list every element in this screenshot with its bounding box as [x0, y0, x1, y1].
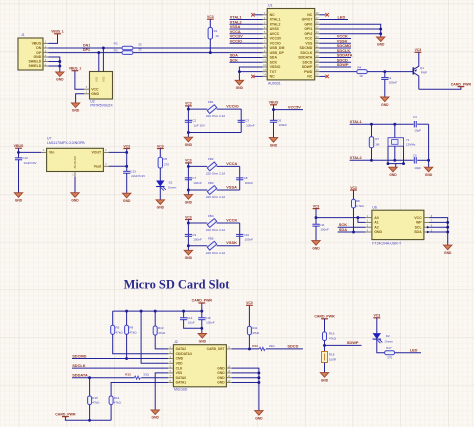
- wire FB2 left down: [187, 166, 189, 190]
- power port VC3 (U7): [123, 148, 130, 150]
- svg-text:GND: GND: [217, 371, 225, 375]
- wire net VSSA to U1: [230, 28, 263, 30]
- wire FB1 right down: [240, 109, 242, 132]
- svg-text:10uF/16V: 10uF/16V: [24, 161, 37, 165]
- connector J1 USB: [18, 38, 43, 70]
- resistor R11: [247, 326, 251, 335]
- svg-text:VSS: VSS: [305, 41, 313, 45]
- wire CARD_PWR bottom rail: [65, 417, 111, 421]
- power port VBUS (C6): [270, 104, 277, 106]
- svg-text:CARD_PWR: CARD_PWR: [451, 82, 472, 86]
- svg-text:R14: R14: [114, 396, 120, 400]
- wire R10 to DATA2: [155, 335, 168, 349]
- wire FB2 right down: [239, 166, 241, 190]
- svg-text:NC: NC: [270, 75, 276, 79]
- svg-text:SDWP: SDWP: [302, 65, 313, 69]
- svg-text:ADJ/GND: ADJ/GND: [73, 156, 77, 168]
- wire C4 to right rail: [417, 123, 428, 125]
- power port VC3 (FB2): [185, 162, 192, 164]
- svg-text:VCC: VCC: [414, 216, 422, 220]
- wire net VCCA to U1: [230, 33, 263, 35]
- wire DP: [48, 52, 122, 54]
- svg-text:SDA: SDA: [270, 56, 278, 60]
- svg-text:R4: R4: [357, 65, 361, 69]
- svg-text:270: 270: [164, 162, 169, 166]
- wire FB5 rail: [188, 245, 207, 247]
- svg-text:C12: C12: [22, 156, 28, 160]
- wire Q1 collector to CARD_PWR: [419, 87, 461, 90]
- svg-text:GND: GND: [71, 199, 79, 203]
- svg-text:220 Ohm 2.2A: 220 Ohm 2.2A: [206, 228, 225, 232]
- svg-text:GND: GND: [72, 109, 80, 113]
- svg-text:XTAL2: XTAL2: [270, 22, 281, 26]
- wire VBUS node: [273, 105, 275, 110]
- svg-text:VC3: VC3: [313, 204, 320, 208]
- svg-text:1M: 1M: [375, 142, 380, 146]
- svg-text:C10: C10: [244, 233, 250, 237]
- svg-text:C9: C9: [192, 233, 196, 237]
- wire C5 to right rail: [417, 159, 428, 161]
- svg-text:47kΩ: 47kΩ: [158, 331, 166, 335]
- svg-text:VSSK: VSSK: [226, 240, 237, 245]
- wire VC3 to D2: [376, 318, 378, 333]
- wire DN: [48, 47, 122, 49]
- svg-text:I/O2: I/O2: [102, 76, 106, 81]
- power port VC3 (FB1): [185, 105, 192, 107]
- svg-text:R1: R1: [214, 29, 218, 33]
- svg-text:VCCIO: VCCIO: [230, 38, 242, 43]
- svg-text:A2: A2: [374, 225, 379, 229]
- ground U7 ADJ: [71, 193, 79, 198]
- svg-text:C1: C1: [388, 76, 392, 80]
- svg-text:SDCMD: SDCMD: [72, 353, 86, 358]
- svg-text:GND: GND: [217, 376, 225, 380]
- svg-text:GPIO7: GPIO7: [302, 18, 313, 22]
- wire VBUS_1 to U2 VCC: [75, 71, 84, 90]
- ground C13: [123, 193, 131, 198]
- svg-text:VC3: VC3: [207, 15, 214, 19]
- svg-text:FB3: FB3: [208, 181, 214, 185]
- wire U1 GPI0-2 tie: [319, 24, 380, 37]
- wire U1 pin28 NC stub: [319, 14, 325, 16]
- svg-text:SCK: SCK: [270, 60, 278, 64]
- wire VC3 to R6: [159, 149, 161, 158]
- capacitor C10: [236, 233, 243, 235]
- svg-text:NC: NC: [307, 13, 313, 17]
- capacitor C12: [18, 152, 20, 158]
- wire D1 to ground: [159, 187, 161, 200]
- wire SCK to U6 A2: [338, 226, 366, 228]
- power port VBUS (U7): [15, 147, 22, 149]
- ground FB1 group: [184, 137, 192, 142]
- svg-text:R5: R5: [116, 325, 120, 329]
- ground U1 left: [235, 80, 243, 85]
- wire FB2 rail: [188, 165, 207, 167]
- wire R9 column: [126, 311, 128, 325]
- svg-text:VSSA: VSSA: [226, 185, 237, 190]
- svg-text:VOUT: VOUT: [91, 151, 102, 155]
- resistor R1: [208, 28, 212, 40]
- svg-text:Vout: Vout: [94, 165, 102, 169]
- svg-text:33Ω: 33Ω: [143, 372, 149, 376]
- svg-text:GPI0: GPI0: [304, 22, 312, 26]
- svg-text:VBUS: VBUS: [269, 101, 279, 105]
- svg-text:MicroSD: MicroSD: [174, 387, 188, 391]
- svg-text:C3: C3: [245, 119, 249, 123]
- wire U7 VOUT to VC3: [109, 151, 127, 153]
- svg-text:D1: D1: [169, 180, 173, 184]
- power port CARD_PWR (bottom): [62, 416, 69, 418]
- svg-text:220 Ohm 2.2A: 220 Ohm 2.2A: [206, 114, 225, 118]
- svg-text:R12: R12: [252, 344, 258, 348]
- wire VC3 to R8: [353, 190, 355, 199]
- wire VC3 to U6 A0: [315, 209, 317, 218]
- power port VC3 (D1): [157, 148, 164, 150]
- svg-text:C14: C14: [187, 316, 193, 320]
- ferrite bead FB2: [207, 162, 216, 171]
- svg-text:Green: Green: [168, 186, 177, 190]
- wire net SDCLK from U1: [319, 52, 351, 54]
- svg-text:C8: C8: [244, 176, 248, 180]
- capacitor C14: [183, 311, 185, 318]
- svg-text:SDCLK: SDCLK: [300, 51, 313, 55]
- wire U1 pin14 NC stub: [254, 75, 262, 77]
- svg-text:I/O1: I/O1: [95, 76, 99, 81]
- svg-text:C5: C5: [413, 153, 417, 157]
- svg-text:100nF: 100nF: [320, 227, 329, 231]
- regulator U7 LM1117: [47, 148, 104, 171]
- svg-text:Y1: Y1: [406, 138, 410, 142]
- wire net SDCMD from U1: [319, 47, 351, 49]
- svg-text:10pF: 10pF: [414, 128, 421, 132]
- capacitor C2: [185, 119, 192, 121]
- resistor R18: [322, 352, 328, 363]
- wire SDDATA right: [141, 377, 168, 379]
- svg-text:VBUS_1: VBUS_1: [51, 30, 64, 34]
- svg-text:22uF/6.3V: 22uF/6.3V: [131, 174, 145, 178]
- svg-text:VCC: VCC: [305, 37, 313, 41]
- wire SCK to U1: [230, 61, 263, 63]
- svg-text:C7: C7: [192, 176, 196, 180]
- svg-text:LED: LED: [338, 15, 346, 20]
- wire DATA1 column: [111, 383, 168, 397]
- svg-text:GND: GND: [217, 366, 225, 370]
- power port CARD_PWR (Q1): [458, 86, 465, 88]
- svg-text:GND: GND: [321, 378, 329, 382]
- no-connect X pin14: [251, 75, 254, 78]
- svg-text:CD/DATA3: CD/DATA3: [176, 352, 192, 356]
- wire SDCLK: [72, 367, 168, 369]
- svg-text:VCCIO: VCCIO: [270, 41, 281, 45]
- svg-text:GND: GND: [312, 246, 320, 250]
- svg-text:C4: C4: [413, 115, 417, 119]
- svg-text:GPI1: GPI1: [304, 27, 312, 31]
- junction R1/DP: [209, 51, 212, 54]
- wire SDA to U6 GND pin: [338, 231, 366, 233]
- svg-text:Micro SD Card Slot: Micro SD Card Slot: [124, 277, 231, 291]
- svg-text:GND: GND: [377, 43, 385, 47]
- power port VC3 (U6 left): [313, 208, 320, 210]
- wire U6 right tie: [429, 218, 448, 232]
- wire net XTAL1 to U1: [230, 19, 263, 21]
- svg-text:GND: GND: [91, 92, 99, 96]
- svg-text:GND: GND: [123, 199, 131, 203]
- svg-text:C2: C2: [192, 119, 196, 123]
- svg-text:GND: GND: [236, 86, 244, 90]
- svg-text:FB1: FB1: [208, 100, 214, 104]
- svg-text:VC3: VC3: [185, 102, 192, 106]
- crystal Y1 12MHz: [394, 124, 396, 138]
- capacitor C7: [185, 177, 192, 179]
- svg-text:1uF 16V: 1uF 16V: [194, 123, 205, 127]
- wire R18 to ground: [324, 363, 326, 373]
- svg-text:FB2: FB2: [208, 157, 214, 161]
- svg-text:SHIELD: SHIELD: [28, 60, 41, 64]
- svg-text:VC3: VC3: [123, 144, 130, 148]
- capacitor C1: [384, 72, 386, 78]
- svg-text:VC3: VC3: [246, 301, 253, 305]
- ground R18: [320, 373, 328, 378]
- svg-text:CARD_DET: CARD_DET: [207, 347, 225, 351]
- svg-text:100nF: 100nF: [193, 181, 202, 185]
- wire net VCCK from U1: [319, 38, 351, 40]
- wire U2 pin to DP: [98, 53, 100, 72]
- svg-text:220 Ohm 2.2A: 220 Ohm 2.2A: [206, 251, 225, 255]
- svg-text:DATA0: DATA0: [176, 376, 187, 380]
- no-connect X pin15: [325, 75, 328, 78]
- ground J2 right: [255, 411, 263, 416]
- svg-text:VCCK: VCCK: [226, 218, 237, 223]
- transistor Q1 PNP: [412, 67, 414, 74]
- resistor R2: [122, 46, 133, 50]
- svg-text:220 Ohm 2.2A: 220 Ohm 2.2A: [206, 195, 225, 199]
- ferrite bead FB1: [207, 105, 216, 114]
- svg-text:SDWP: SDWP: [347, 340, 359, 345]
- svg-text:CARD_PWR: CARD_PWR: [55, 412, 76, 416]
- svg-text:U6: U6: [372, 205, 377, 209]
- capacitor C3: [238, 119, 245, 121]
- svg-text:12MHz: 12MHz: [406, 143, 416, 147]
- wire U1 PWD to R4: [319, 71, 356, 73]
- svg-text:AVSS: AVSS: [270, 27, 280, 31]
- svg-text:100nF: 100nF: [279, 123, 288, 127]
- wire U1 pin15 NC stub: [319, 75, 325, 77]
- ground FB2 group: [184, 195, 192, 200]
- svg-text:VC3: VC3: [157, 144, 164, 148]
- svg-text:SDCLK: SDCLK: [72, 363, 86, 368]
- ground J1: [56, 72, 64, 77]
- wire R9 to CMD: [126, 334, 128, 358]
- op-amp U2 PRTR5V0U2X ESD: [90, 72, 113, 100]
- ground crystal rail: [424, 167, 432, 172]
- wire R5 column: [112, 311, 114, 325]
- power port VC3 (Q1): [415, 51, 422, 53]
- resistor R12 33ohm: [259, 347, 265, 350]
- svg-text:VCC5V: VCC5V: [288, 104, 301, 109]
- wire U1 pin1 NC stub: [254, 14, 262, 16]
- resistor R16: [323, 332, 327, 341]
- wire net SDWP from U1: [319, 66, 351, 68]
- svg-text:100R: 100R: [329, 357, 337, 361]
- no-connect X pin1: [251, 13, 254, 16]
- svg-text:33: 33: [138, 47, 142, 51]
- wire CARD_PWR to R16: [324, 319, 326, 332]
- wire net VCC3V to U1: [230, 38, 263, 40]
- wire FB3 rail: [188, 189, 207, 191]
- wire VC3 FB4 node: [187, 220, 189, 224]
- svg-text:SDWP: SDWP: [337, 62, 349, 67]
- resistor R5: [111, 325, 115, 334]
- svg-text:SCL: SCL: [415, 225, 423, 229]
- power port CARD_PWR (R16): [321, 318, 328, 320]
- resistor R17: [385, 351, 395, 355]
- ground U2: [71, 103, 79, 108]
- svg-text:LM1117IMPX-3.0/NOPB: LM1117IMPX-3.0/NOPB: [47, 141, 85, 145]
- capacitor C9: [185, 233, 192, 235]
- svg-text:Q1: Q1: [420, 66, 424, 70]
- svg-text:33: 33: [138, 43, 142, 47]
- svg-text:R10: R10: [158, 326, 164, 330]
- svg-text:DATA1: DATA1: [176, 381, 187, 385]
- svg-text:DN: DN: [36, 46, 42, 50]
- wire crystal right rail: [428, 124, 430, 160]
- wire CARD_DET right: [266, 348, 303, 350]
- svg-text:GND: GND: [389, 173, 397, 177]
- wire J1 GND tie: [48, 57, 60, 72]
- wire FB1 rail: [188, 108, 207, 110]
- svg-text:47kΩ: 47kΩ: [114, 401, 122, 405]
- capacitor C4: [413, 121, 415, 127]
- ground J2 VSS: [151, 410, 159, 415]
- ground U1 right: [377, 37, 385, 42]
- wire VDD column: [141, 311, 168, 363]
- svg-text:VCCA: VCCA: [226, 161, 237, 166]
- ground Y1: [389, 167, 397, 172]
- svg-text:VCC3V: VCC3V: [270, 37, 282, 41]
- svg-text:47kΩ: 47kΩ: [129, 330, 137, 334]
- wire net VSSK from U1: [319, 42, 351, 44]
- wire XTAL2: [350, 159, 414, 161]
- svg-text:GND: GND: [374, 230, 382, 234]
- capacitor C15: [201, 311, 203, 318]
- wire R10 column: [154, 311, 156, 326]
- resistor R15: [88, 396, 92, 405]
- svg-text:GND: GND: [381, 103, 389, 107]
- svg-text:100nF: 100nF: [389, 80, 398, 84]
- svg-text:VC3: VC3: [350, 186, 357, 190]
- power port VC3 (R11): [246, 304, 253, 306]
- ferrite bead FB5: [207, 241, 216, 250]
- wire net XTAL2 to U1: [230, 23, 263, 25]
- svg-text:47kΩ: 47kΩ: [329, 337, 337, 341]
- capacitor C13: [126, 166, 128, 171]
- svg-text:GND: GND: [34, 55, 42, 59]
- svg-text:C13: C13: [130, 169, 136, 173]
- svg-text:47kΩ: 47kΩ: [252, 331, 260, 335]
- svg-text:GND: GND: [255, 416, 263, 420]
- wire FB4 left down: [187, 223, 189, 246]
- capacitor C6: [273, 110, 275, 121]
- svg-text:33Ω: 33Ω: [269, 344, 275, 348]
- ground U6: [444, 245, 452, 250]
- svg-text:PNP: PNP: [421, 71, 427, 75]
- capacitor C8: [236, 177, 243, 179]
- wire R1-DP: [209, 39, 211, 53]
- svg-text:XTAL2: XTAL2: [350, 155, 363, 160]
- svg-text:100nF: 100nF: [245, 237, 254, 241]
- svg-text:R13: R13: [125, 372, 131, 376]
- diode D2 LED: [373, 333, 381, 339]
- wire R16 to SDWP: [324, 341, 326, 346]
- power port CARD_PWR (top): [198, 302, 205, 304]
- svg-text:Vin: Vin: [49, 151, 54, 155]
- resistor R3: [122, 51, 133, 55]
- wire SDDATA left: [72, 377, 134, 379]
- svg-text:SDDATA: SDDATA: [298, 56, 313, 60]
- svg-text:NC: NC: [270, 13, 276, 17]
- diode D1 LED: [156, 181, 164, 187]
- svg-text:SDA: SDA: [414, 230, 422, 234]
- wire R17 to LED net: [395, 352, 421, 354]
- wire SDA to U1: [230, 56, 263, 58]
- wire R8 to SDA: [353, 208, 355, 232]
- ground C6: [269, 138, 277, 143]
- wire J2 GND tie: [232, 368, 259, 382]
- svg-text:R7: R7: [375, 137, 379, 141]
- svg-text:XTAL1: XTAL1: [350, 119, 363, 124]
- svg-text:10pF: 10pF: [414, 166, 421, 170]
- svg-text:R15: R15: [92, 396, 98, 400]
- svg-text:R2: R2: [114, 42, 118, 46]
- capacitor C11: [315, 218, 317, 225]
- resistor R8: [352, 199, 356, 208]
- svg-text:GND: GND: [185, 143, 193, 147]
- wire CARD_PWR rail: [201, 303, 203, 311]
- svg-text:VC3: VC3: [185, 159, 192, 163]
- wire D2 to R17: [377, 339, 385, 353]
- wire R15 to rail: [89, 405, 91, 421]
- wire R11 to CARD_DET: [248, 335, 250, 349]
- ground C1: [381, 97, 389, 102]
- svg-text:NC: NC: [307, 75, 313, 79]
- svg-text:Green: Green: [385, 339, 394, 343]
- svg-text:220 Ohm 2.2A: 220 Ohm 2.2A: [206, 172, 225, 176]
- svg-text:SDCD: SDCD: [287, 344, 298, 349]
- svg-text:GND: GND: [157, 206, 165, 210]
- svg-text:1K: 1K: [215, 34, 219, 38]
- svg-text:R11: R11: [252, 326, 258, 330]
- power port VBUS_1 (J1): [54, 33, 61, 35]
- svg-text:270: 270: [387, 356, 392, 360]
- resistor R10: [153, 326, 157, 335]
- svg-text:GND: GND: [217, 381, 225, 385]
- svg-text:GND: GND: [185, 256, 193, 260]
- svg-text:DP1: DP1: [83, 48, 90, 52]
- wire Y1 case pins: [387, 146, 389, 163]
- resistor R4: [357, 70, 367, 74]
- wire U7 Vout tab: [109, 165, 127, 167]
- svg-text:R8: R8: [356, 199, 360, 203]
- svg-text:VBUS: VBUS: [32, 42, 42, 46]
- power port VBUS_1 (U2): [72, 70, 79, 72]
- wire U2 pin to DN: [102, 48, 104, 72]
- svg-text:AVCC: AVCC: [270, 32, 280, 36]
- svg-text:VDD: VDD: [176, 361, 184, 365]
- svg-text:GND: GND: [270, 143, 278, 147]
- svg-text:VCCIO: VCCIO: [226, 104, 238, 109]
- svg-text:J2: J2: [174, 340, 178, 344]
- connector J2 MicroSD slot: [173, 345, 226, 387]
